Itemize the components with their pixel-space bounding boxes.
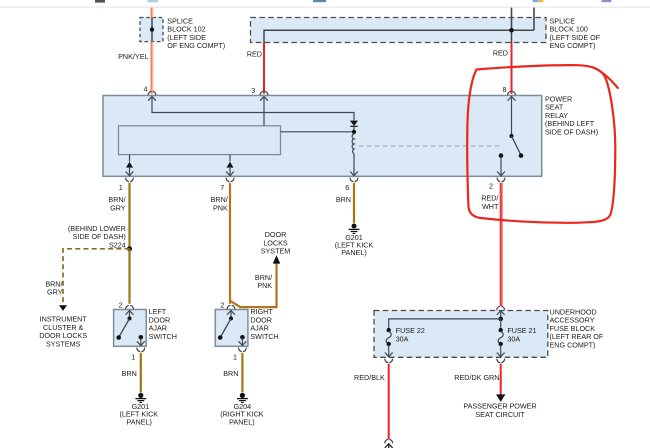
relay pin 1 internal wire with diode D2	[126, 155, 133, 176]
label RIGHT DOOR AJAR SWITCH	[250, 307, 278, 341]
svg-text:2: 2	[220, 301, 224, 310]
browser chrome remnant mark 2	[148, 0, 159, 2]
svg-text:PANEL): PANEL)	[341, 248, 366, 257]
fuse 22 output wire to pin	[388, 345, 390, 357]
offpage connector chevron (RED/BLK)	[385, 440, 393, 443]
wire RED/BLK from fuse 22	[388, 364, 390, 440]
relay internal coil/contact block	[119, 126, 281, 155]
label FUSE 22 30A	[396, 326, 425, 343]
left switch pin 1 connector chevron	[137, 348, 145, 351]
wire RED/WHT relay pin2 to fuse block	[500, 183, 503, 306]
svg-text:SYSTEMS: SYSTEMS	[46, 340, 81, 349]
relay linkage dashed line	[359, 145, 500, 147]
browser chrome remnant mark 3	[313, 0, 326, 2]
wire black feed 2 into splice block 100	[533, 8, 535, 31]
relay pin 1 connector chevron	[126, 178, 134, 181]
svg-text:ENG COMPT): ENG COMPT)	[550, 41, 596, 50]
fuse F22 (FUSE 22 30A)	[386, 328, 391, 346]
relay switch blade SW1	[512, 136, 521, 155]
splice 100 internal bus wire	[264, 30, 534, 42]
relay pin 4 connector chevron	[148, 91, 156, 94]
svg-text:BRN: BRN	[122, 369, 137, 378]
right switch internal wire pin2 to contact	[230, 311, 232, 319]
right switch pin 1 internal arrow	[239, 341, 247, 345]
svg-text:1: 1	[119, 183, 123, 192]
arrow to door locks system	[273, 255, 281, 263]
svg-text:RED: RED	[493, 49, 508, 58]
ground G201 (pin 6)	[349, 224, 360, 234]
label UNDERHOOD ACCESSORY FUSE BLOCK	[550, 307, 604, 349]
right switch contact dot top	[229, 317, 233, 321]
relay switch contact dot (pin2 side)	[499, 153, 504, 158]
label G201 (pin 6 ground)	[335, 233, 374, 257]
left switch contact dot top	[128, 317, 132, 321]
relay internal wire pin8 to switch contact	[511, 97, 513, 135]
relay pin 3 connector chevron	[260, 91, 268, 94]
fuse block bus junction dot	[498, 317, 503, 322]
node S224 junction dot	[127, 246, 132, 251]
label BRN/PNK (branch)	[255, 273, 272, 290]
svg-text:6: 6	[345, 183, 349, 192]
svg-text:ENG COMPT): ENG COMPT)	[550, 341, 596, 350]
svg-text:2: 2	[489, 181, 493, 190]
wire RED from splice 100 to relay pin 8	[511, 43, 513, 94]
svg-text:8: 8	[503, 85, 507, 94]
wire black feed 1 into splice block 100	[511, 8, 513, 31]
svg-text:RED: RED	[247, 49, 262, 58]
relay pin 3 internal arrow	[260, 97, 268, 101]
splice junction dot S100	[509, 28, 514, 33]
svg-text:SWITCH: SWITCH	[250, 332, 278, 341]
svg-text:SIDE OF DASH): SIDE OF DASH)	[545, 127, 598, 136]
fuse 21 output wire to pin	[500, 345, 502, 357]
svg-text:S224: S224	[109, 240, 126, 249]
fuse block internal bus wire to fuse 22	[389, 319, 501, 328]
wire BRN right switch to G204	[241, 353, 243, 393]
label G204 (right kick panel)	[220, 402, 264, 426]
svg-text:PANEL): PANEL)	[126, 417, 151, 426]
svg-text:3: 3	[251, 86, 255, 95]
fuse F21 (FUSE 21 30A)	[498, 328, 503, 346]
label SPLICE BLOCK 102	[167, 16, 225, 50]
right switch internal wire contact to pin1	[241, 338, 243, 345]
wire PNK/YEL above splice block 102	[151, 8, 154, 18]
label INSTRUMENT CLUSTER & DOOR LOCKS SYSTEMS	[39, 315, 87, 349]
fuse block entry connector chevron	[497, 306, 505, 309]
fuse 22 output arrow	[385, 353, 393, 357]
relay pin 1 internal arrow	[126, 172, 134, 176]
arrow to instrument cluster & door locks systems	[59, 305, 67, 311]
browser chrome remnant mark 1	[95, 0, 105, 3]
arrow to passenger power seat circuit	[496, 394, 505, 402]
svg-text:WHT: WHT	[482, 202, 499, 211]
label BEHIND LOWER SIDE OF DASH S224	[68, 224, 126, 249]
svg-text:RED/DK GRN: RED/DK GRN	[454, 373, 499, 382]
underhood accessory fuse block box	[374, 311, 548, 358]
svg-text:BRN: BRN	[336, 195, 351, 204]
dashed wire BRN/GRY branch to instrument cluster	[63, 249, 130, 305]
power seat relay U-RELAY body	[103, 96, 542, 177]
left switch blade end dot	[116, 335, 121, 340]
wire BRN/GRY S224 to left door ajar switch	[128, 249, 130, 304]
relay pin 6 connector chevron	[350, 178, 358, 181]
relay switch contact dot (pin8 side)	[509, 134, 513, 138]
offpage connector arrow (RED/BLK)	[385, 444, 393, 448]
right switch pin 2 connector chevron	[227, 305, 235, 308]
relay pin 8 connector chevron	[508, 91, 516, 94]
svg-text:BRN: BRN	[223, 369, 238, 378]
relay pin 4 internal arrow	[148, 97, 156, 101]
ground G204 (right kick panel)	[237, 393, 248, 403]
svg-text:GRY: GRY	[110, 203, 126, 212]
label BRN/GRY (pin 1)	[108, 195, 125, 212]
label DOOR LOCKS SYSTEM	[261, 230, 291, 256]
svg-text:4: 4	[144, 85, 148, 94]
relay pin 7 connector chevron	[226, 178, 234, 181]
svg-text:RED/BLK: RED/BLK	[354, 373, 385, 382]
left switch internal wire contact to pin1	[140, 338, 142, 345]
right switch pin 1 contact dot	[240, 335, 245, 340]
splice block 100 box	[251, 18, 547, 43]
red annotation overshoot stroke	[592, 67, 618, 88]
browser chrome remnants: top hairline	[0, 7, 650, 8]
ground G201 (left kick panel)	[135, 393, 146, 403]
svg-text:SYSTEM: SYSTEM	[261, 247, 291, 256]
browser chrome remnant mark 4	[533, 0, 538, 2]
right switch blade	[221, 319, 232, 337]
relay switch blade end dot	[519, 153, 524, 158]
splice junction dot S102	[150, 27, 154, 31]
left door ajar switch SW-L body	[114, 310, 147, 347]
wire inside splice block 102	[151, 18, 153, 42]
svg-text:PNK/YEL: PNK/YEL	[118, 52, 148, 61]
wire BRN/PNK branch to door locks system	[230, 263, 277, 307]
splice 100 internal drop to pin 8	[511, 30, 513, 42]
relay internal wire coil to pin 6	[353, 154, 355, 176]
relay pin 7 internal wire with diode D3	[227, 155, 234, 176]
relay internal wire pin3 to contact block	[263, 97, 265, 126]
left switch internal wire pin2 to contact	[129, 311, 131, 319]
svg-text:OF ENG COMPT): OF ENG COMPT)	[167, 41, 225, 50]
red hand-drawn annotation loop	[467, 65, 615, 223]
svg-text:1: 1	[131, 353, 135, 362]
svg-text:1: 1	[233, 353, 237, 362]
label G201 (left kick panel)	[119, 402, 158, 426]
label RED/WHT (pin 2)	[481, 194, 499, 211]
wire BRN/PNK relay pin7 to right door ajar switch	[229, 183, 231, 304]
browser chrome remnant mark 5	[538, 0, 543, 2]
svg-text:SEAT CIRCUIT: SEAT CIRCUIT	[475, 410, 525, 419]
left switch blade	[119, 319, 130, 337]
fuse 22 output connector chevron	[385, 359, 393, 362]
fuse block entry arrow	[497, 311, 505, 315]
svg-text:7: 7	[220, 183, 224, 192]
relay coil node junction dot	[352, 130, 356, 134]
left switch pin 2 internal arrow	[126, 311, 134, 315]
fuse 21 output connector chevron	[497, 359, 505, 362]
label BRN/PNK (pin 7)	[211, 195, 228, 212]
splice block 102 box	[140, 18, 163, 42]
wire BRN left switch to G201	[140, 353, 142, 393]
wire PNK/YEL from splice 102 to relay pin 4	[151, 42, 154, 94]
label FUSE 21 30A	[507, 326, 536, 343]
wire BRN relay pin6 to G201	[353, 183, 355, 223]
relay internal wire contact to pin 2	[500, 157, 502, 176]
browser chrome remnant mark 6	[602, 0, 612, 2]
svg-text:30A: 30A	[507, 334, 520, 343]
right switch pin 1 connector chevron	[239, 348, 247, 351]
relay pin 2 connector chevron	[497, 178, 505, 181]
wire RED from splice 100 to relay pin 3	[263, 43, 265, 94]
fuse 21 output arrow	[497, 353, 505, 357]
svg-text:SWITCH: SWITCH	[149, 332, 177, 341]
svg-text:GRY: GRY	[47, 288, 63, 297]
fuse block internal wire entry to bus	[500, 311, 502, 319]
fuse block internal wire to fuse 21	[500, 319, 502, 328]
svg-text:PNK: PNK	[257, 281, 272, 290]
svg-text:2: 2	[119, 301, 123, 310]
svg-text:30A: 30A	[396, 334, 409, 343]
wire RED/DK GRN from fuse 21	[500, 364, 502, 395]
left switch pin 1 contact dot	[139, 335, 144, 340]
right switch blade end dot	[218, 335, 223, 340]
svg-text:PNK: PNK	[213, 203, 228, 212]
relay pin 8 internal arrow	[508, 97, 516, 101]
label BRN/GRY (dashed branch)	[45, 279, 62, 296]
relay pin 6 internal arrow	[350, 172, 358, 176]
svg-text:PANEL): PANEL)	[229, 417, 254, 426]
label SPLICE BLOCK 100	[550, 16, 601, 50]
relay pin 2 internal arrow	[497, 172, 505, 176]
label LEFT DOOR AJAR SWITCH	[149, 307, 177, 341]
relay pin 7 internal arrow	[226, 172, 234, 176]
relay internal diode D1	[350, 121, 358, 132]
label POWER SEAT RELAY	[545, 95, 598, 137]
relay internal wire pin4 to coil diode	[152, 97, 354, 121]
wire BRN/GRY relay pin1 to S224 junction	[128, 183, 130, 249]
label PASSENGER POWER SEAT CIRCUIT	[463, 402, 536, 419]
relay coil L1	[352, 134, 354, 154]
left switch pin 1 internal arrow	[137, 341, 145, 345]
right switch pin 2 internal arrow	[227, 311, 235, 315]
relay internal wire contact-block to coil node	[281, 131, 355, 133]
right door ajar switch SW-R body	[215, 310, 248, 347]
left switch pin 2 connector chevron	[126, 305, 134, 308]
